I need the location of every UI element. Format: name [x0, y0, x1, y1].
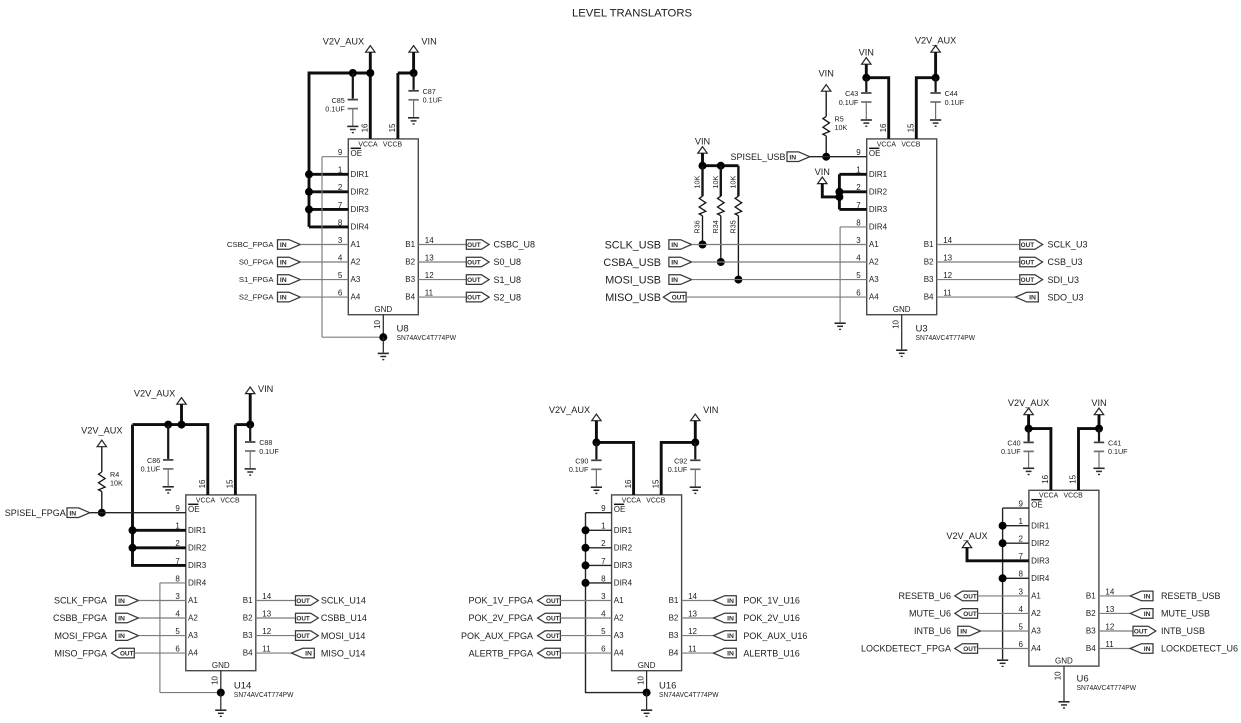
- svg-text:MUTE_U6: MUTE_U6: [909, 609, 951, 619]
- svg-text:15: 15: [1069, 474, 1078, 483]
- svg-text:16: 16: [198, 479, 207, 488]
- junction V2V_AUX / C90: [592, 438, 600, 446]
- wire OE stub: [586, 512, 612, 514]
- svg-text:MUTE_USB: MUTE_USB: [1161, 609, 1210, 619]
- wire OE pin 9: [322, 156, 348, 158]
- ground (U14 GND): [215, 710, 226, 716]
- svg-text:VCCA: VCCA: [622, 497, 642, 504]
- svg-text:OUT: OUT: [1021, 277, 1035, 284]
- svg-text:0.1UF: 0.1UF: [668, 465, 688, 474]
- svg-text:0.1UF: 0.1UF: [1001, 447, 1021, 456]
- junction GND node U16: [643, 689, 651, 697]
- svg-text:4: 4: [1018, 605, 1023, 614]
- svg-text:IN: IN: [280, 260, 287, 267]
- port OUT SCLK_U3: [1020, 240, 1043, 250]
- junction GND node U14: [217, 689, 225, 697]
- ground: [245, 469, 256, 475]
- svg-text:A1: A1: [869, 240, 879, 249]
- svg-text:MOSI_USB: MOSI_USB: [605, 274, 661, 286]
- capacitor C40 0.1UF: [1001, 429, 1034, 468]
- svg-text:GND: GND: [893, 305, 911, 314]
- wire VCCB pin 15 feed: [396, 73, 399, 139]
- wire B pin to SDO_U3: [937, 296, 1016, 298]
- svg-text:IN: IN: [727, 598, 734, 605]
- svg-text:IN: IN: [69, 510, 76, 517]
- svg-text:SN74AVC4T774PW: SN74AVC4T774PW: [659, 690, 719, 699]
- junction VIN / C43: [862, 74, 870, 82]
- ground: [1093, 468, 1104, 474]
- power V2V_AUX (R4): [81, 426, 122, 447]
- svg-text:IN: IN: [280, 295, 287, 302]
- wire B pin to LOCKDETECT_U6: [1099, 648, 1130, 650]
- resistor R34 10K: [720, 166, 722, 197]
- wire DIR2 stub: [1003, 542, 1029, 544]
- wire B pin to CSBB_U14: [256, 617, 296, 619]
- port IN POK_AUX_U16: [714, 631, 737, 641]
- svg-text:B3: B3: [1086, 627, 1096, 636]
- svg-text:VIN: VIN: [815, 167, 830, 177]
- port OUT S1_U8: [466, 275, 489, 285]
- wire B pin to ALERTB_U16: [682, 652, 714, 654]
- wire VCCB feed: [234, 425, 237, 495]
- svg-text:A3: A3: [614, 631, 624, 640]
- svg-text:VCCA: VCCA: [1039, 493, 1059, 500]
- junction VIN / C92: [691, 438, 699, 446]
- svg-text:5: 5: [338, 271, 343, 280]
- port OUT CSBC_U8: [466, 240, 489, 250]
- power VIN (R5): [819, 68, 834, 91]
- wire V2V_AUX to VCCA: [596, 442, 633, 495]
- svg-text:10K: 10K: [110, 479, 123, 488]
- svg-text:IN: IN: [118, 598, 125, 605]
- junction R5 / SPISEL_USB / OE: [822, 153, 830, 161]
- wire GND pin 10: [1063, 666, 1065, 701]
- svg-text:IN: IN: [671, 277, 678, 284]
- svg-text:OUT: OUT: [963, 646, 977, 653]
- svg-text:CSB_U3: CSB_U3: [1048, 257, 1083, 267]
- svg-text:6: 6: [856, 289, 861, 298]
- wire V2V_AUX to VCCA pin 16: [369, 52, 372, 139]
- wire DIR1 stub: [1003, 525, 1029, 527]
- svg-text:SN74AVC4T774PW: SN74AVC4T774PW: [916, 333, 976, 342]
- power V2V_AUX (U8): [323, 36, 375, 52]
- port IN SDO_U3: [1016, 292, 1039, 302]
- svg-text:9: 9: [601, 504, 606, 513]
- power VIN (U14): [246, 384, 274, 394]
- svg-text:OE: OE: [869, 149, 881, 158]
- wire B pin to POK_2V_U16: [682, 617, 714, 619]
- svg-text:IN: IN: [1144, 646, 1151, 653]
- svg-text:IN: IN: [789, 154, 796, 161]
- wire DIR4 stub: [840, 226, 867, 228]
- svg-text:OUT: OUT: [963, 594, 977, 601]
- wire DIR1 stub: [133, 529, 186, 532]
- power VIN (U6): [1091, 398, 1106, 415]
- wire CSBA_USB to pin: [692, 261, 867, 263]
- wire B pin to SDI_U3: [937, 279, 1020, 281]
- port IN S0_FPGA: [278, 257, 301, 267]
- wire VIN stem: [865, 64, 868, 78]
- junction DIR1: [582, 526, 590, 534]
- svg-text:B2: B2: [1086, 609, 1096, 618]
- wire RESETB_U6 to pin: [978, 595, 1029, 597]
- svg-text:DIR1: DIR1: [351, 170, 370, 179]
- svg-text:VCCA: VCCA: [196, 497, 216, 504]
- svg-text:IN: IN: [671, 242, 678, 249]
- svg-text:VIN: VIN: [859, 47, 874, 57]
- wire B pin to SCLK_U3: [937, 244, 1020, 246]
- svg-text:B3: B3: [243, 631, 253, 640]
- svg-text:V2V_AUX: V2V_AUX: [81, 426, 122, 436]
- resistor R4 zigzag: [99, 472, 106, 492]
- wire GND pin 10: [220, 671, 222, 693]
- port OUT MUTE_U6: [955, 609, 978, 619]
- svg-text:13: 13: [1105, 605, 1114, 614]
- svg-text:CSBA_USB: CSBA_USB: [603, 257, 661, 269]
- port OUT SDI_U3: [1020, 275, 1043, 285]
- svg-text:B4: B4: [669, 649, 679, 658]
- port OUT LOCKDETECT_FPGA: [955, 644, 978, 654]
- power V2V_AUX (U3 VCCB): [915, 35, 956, 52]
- svg-text:16: 16: [1041, 474, 1050, 483]
- svg-text:OUT: OUT: [546, 616, 560, 623]
- wire LOCKDETECT_FPGA to pin: [978, 648, 1029, 650]
- svg-text:OE: OE: [188, 505, 200, 514]
- resistor R34 zigzag: [718, 196, 725, 216]
- svg-text:DIR4: DIR4: [1031, 574, 1050, 583]
- wire OE stub: [1003, 507, 1029, 509]
- wire VIN to VCCB: [661, 442, 695, 495]
- svg-text:1: 1: [601, 522, 606, 531]
- svg-text:VIN: VIN: [819, 68, 834, 78]
- svg-text:OE: OE: [614, 505, 626, 514]
- svg-text:MISO_FPGA: MISO_FPGA: [54, 648, 107, 658]
- junction R36 bottom: [699, 241, 707, 249]
- port IN S2_FPGA: [278, 292, 301, 302]
- svg-text:10K: 10K: [729, 176, 738, 189]
- svg-text:VIN: VIN: [703, 405, 718, 415]
- svg-text:DIR3: DIR3: [614, 561, 633, 570]
- svg-text:DIR4: DIR4: [188, 579, 207, 588]
- svg-text:8: 8: [856, 218, 861, 227]
- svg-text:A3: A3: [188, 631, 198, 640]
- svg-text:IN: IN: [118, 616, 125, 623]
- svg-text:B2: B2: [924, 258, 934, 267]
- svg-text:A4: A4: [1031, 644, 1041, 653]
- svg-text:B4: B4: [1086, 644, 1096, 653]
- svg-text:6: 6: [338, 289, 343, 298]
- wire V2V_AUX rail to VCCA: [133, 425, 208, 495]
- svg-text:R35: R35: [729, 220, 738, 233]
- svg-text:10: 10: [892, 319, 901, 328]
- wire S0_FPGA to pin: [300, 261, 348, 263]
- wire DIR4 stub: [160, 582, 186, 584]
- svg-text:V2V_AUX: V2V_AUX: [549, 405, 590, 415]
- junction R35 bottom: [734, 276, 742, 284]
- junction V2V_AUX / C44: [932, 74, 940, 82]
- svg-text:13: 13: [425, 253, 434, 262]
- svg-text:OUT: OUT: [1021, 260, 1035, 267]
- svg-text:11: 11: [425, 289, 434, 298]
- ground: [1023, 468, 1034, 474]
- capacitor C92 0.1UF: [668, 442, 701, 486]
- junction VIN rail: [410, 69, 418, 77]
- svg-text:11: 11: [262, 645, 271, 654]
- svg-text:A3: A3: [351, 275, 361, 284]
- wire ALERTB_FPGA to pin: [560, 652, 611, 654]
- wire DIR1 stub: [586, 529, 612, 531]
- port OUT MOSI_U14: [296, 631, 319, 641]
- svg-text:0.1UF: 0.1UF: [945, 98, 965, 107]
- port IN SCLK_FPGA: [116, 596, 139, 606]
- capacitor C88 0.1UF: [245, 425, 279, 469]
- junction DIR2: [305, 188, 313, 196]
- svg-text:B2: B2: [405, 258, 415, 267]
- junction VIN / C41: [1095, 425, 1103, 433]
- svg-text:SPISEL_FPGA: SPISEL_FPGA: [5, 508, 66, 518]
- capacitor C85 0.1UF: [325, 73, 358, 126]
- port OUT SCLK_U14: [296, 596, 319, 606]
- svg-text:GND: GND: [374, 305, 392, 314]
- svg-text:OUT: OUT: [1021, 242, 1035, 249]
- port OUT MISO_USB: [663, 292, 686, 302]
- svg-text:13: 13: [943, 253, 952, 262]
- svg-text:B2: B2: [669, 614, 679, 623]
- svg-text:VCCA: VCCA: [877, 141, 897, 148]
- svg-text:LOCKDETECT_FPGA: LOCKDETECT_FPGA: [861, 644, 951, 654]
- svg-text:A4: A4: [869, 293, 879, 302]
- wire DIR3 stub: [839, 208, 866, 211]
- wire VIN to DIR bus: [822, 184, 839, 197]
- svg-text:A3: A3: [1031, 627, 1041, 636]
- wire MISO_FPGA to pin: [134, 652, 186, 654]
- svg-text:S2_U8: S2_U8: [494, 292, 522, 302]
- power V2V_AUX (U6 DIR3): [946, 531, 987, 548]
- junction DIR1: [999, 522, 1007, 530]
- svg-text:OUT: OUT: [546, 651, 560, 658]
- wire B pin to INTB_USB: [1099, 630, 1133, 632]
- svg-text:SCLK_FPGA: SCLK_FPGA: [54, 596, 107, 606]
- wire R34 to line: [720, 216, 722, 262]
- wire DIR bus vertical: [838, 174, 841, 209]
- svg-text:DIR2: DIR2: [614, 543, 633, 552]
- wire INTB_U6 to pin: [981, 630, 1029, 632]
- svg-text:DIR1: DIR1: [1031, 521, 1050, 530]
- svg-text:B3: B3: [405, 275, 415, 284]
- junction DIR1: [305, 170, 313, 178]
- IC U3 SN74AVC4T774PW level translator: [856, 123, 952, 329]
- port OUT CSB_U3: [1020, 257, 1043, 267]
- wire DIR2 stub: [586, 547, 612, 549]
- svg-text:0.1UF: 0.1UF: [839, 98, 859, 107]
- resistor R35 zigzag: [735, 196, 742, 216]
- svg-text:0.1UF: 0.1UF: [423, 96, 443, 105]
- capacitor C43 0.1UF: [839, 78, 872, 120]
- wire VIN to VCCA pin 16: [866, 78, 888, 139]
- junction DIR2: [582, 544, 590, 552]
- svg-text:2: 2: [1018, 535, 1023, 544]
- wire V2V_AUX to DIR3: [967, 548, 1029, 561]
- svg-text:S1_FPGA: S1_FPGA: [239, 275, 274, 284]
- svg-text:VCCA: VCCA: [358, 141, 378, 148]
- svg-text:OUT: OUT: [120, 651, 134, 658]
- port IN MOSI_FPGA: [116, 631, 139, 641]
- wire B pin to SCLK_U14: [256, 600, 296, 602]
- svg-text:0.1UF: 0.1UF: [325, 104, 345, 113]
- resistor R36 zigzag: [699, 196, 706, 216]
- ground: [591, 487, 602, 493]
- svg-text:10K: 10K: [711, 176, 720, 189]
- junction DIR1: [129, 526, 137, 534]
- ground (U6 DIR bus): [997, 660, 1008, 666]
- ground: [690, 487, 701, 493]
- svg-text:12: 12: [1105, 622, 1114, 631]
- ground (U8 GND): [378, 353, 389, 359]
- wire OE to GND junction: [322, 336, 383, 338]
- svg-text:11: 11: [688, 645, 697, 654]
- port OUT POK_1V_FPGA: [538, 596, 561, 606]
- svg-text:DIR4: DIR4: [351, 223, 370, 232]
- svg-text:A1: A1: [351, 240, 361, 249]
- svg-text:POK_AUX_U16: POK_AUX_U16: [743, 631, 807, 641]
- svg-text:A1: A1: [1031, 592, 1041, 601]
- svg-text:5: 5: [856, 271, 861, 280]
- svg-text:VIN: VIN: [421, 36, 436, 46]
- svg-text:OE: OE: [351, 149, 363, 158]
- resistor R4 10K: [101, 447, 103, 472]
- svg-text:3: 3: [338, 236, 343, 245]
- svg-text:9: 9: [856, 148, 861, 157]
- svg-text:3: 3: [175, 592, 180, 601]
- port IN S1_FPGA: [278, 275, 301, 285]
- wire B pin to S2_U8: [418, 296, 466, 298]
- svg-text:5: 5: [1018, 622, 1023, 631]
- svg-text:4: 4: [856, 253, 861, 262]
- junction VIN / C88: [246, 421, 254, 429]
- svg-text:15: 15: [651, 479, 660, 488]
- wire DIR4 down to ground: [839, 227, 841, 323]
- svg-text:POK_2V_U16: POK_2V_U16: [743, 613, 800, 623]
- IC U14 SN74AVC4T774PW level translator: [175, 479, 271, 685]
- svg-text:CSBB_FPGA: CSBB_FPGA: [53, 613, 107, 623]
- wire R35 to line: [737, 216, 739, 280]
- svg-text:0.1UF: 0.1UF: [141, 465, 161, 474]
- svg-text:A1: A1: [614, 596, 624, 605]
- wire DIR4 to GND node: [160, 692, 221, 694]
- wire B pin to CSB_U3: [937, 261, 1020, 263]
- ground: [408, 118, 419, 124]
- port IN CSBA_USB: [669, 257, 692, 267]
- port OUT S0_U8: [466, 257, 489, 267]
- wire VIN stem: [249, 394, 252, 425]
- svg-text:B3: B3: [669, 631, 679, 640]
- svg-text:13: 13: [262, 609, 271, 618]
- wire SCLK_FPGA to pin: [139, 600, 186, 602]
- port OUT S2_U8: [466, 292, 489, 302]
- svg-text:MISO_USB: MISO_USB: [605, 292, 661, 304]
- svg-text:11: 11: [943, 289, 952, 298]
- svg-text:0.1UF: 0.1UF: [1108, 447, 1128, 456]
- svg-text:12: 12: [943, 271, 952, 280]
- svg-text:DIR3: DIR3: [869, 205, 888, 214]
- svg-text:SN74AVC4T774PW: SN74AVC4T774PW: [234, 690, 294, 699]
- wire MOSI_USB to pin: [692, 279, 867, 281]
- svg-text:SDI_U3: SDI_U3: [1048, 275, 1080, 285]
- svg-text:14: 14: [688, 592, 697, 601]
- wire DIR4 tie: [309, 225, 348, 228]
- svg-text:14: 14: [943, 236, 952, 245]
- port OUT RESETB_U6: [955, 591, 978, 601]
- svg-text:12: 12: [262, 627, 271, 636]
- resistor R35 10K: [737, 166, 739, 197]
- wire DIR4 down: [159, 583, 161, 693]
- svg-text:10: 10: [1054, 671, 1063, 680]
- svg-text:DIR2: DIR2: [869, 187, 888, 196]
- power V2V_AUX (U6): [1008, 398, 1049, 415]
- svg-text:R34: R34: [711, 220, 720, 233]
- svg-text:OUT: OUT: [546, 598, 560, 605]
- svg-text:5: 5: [601, 627, 606, 636]
- svg-text:DIR4: DIR4: [614, 579, 633, 588]
- svg-text:OUT: OUT: [467, 260, 481, 267]
- svg-text:4: 4: [175, 609, 180, 618]
- svg-text:A2: A2: [1031, 609, 1041, 618]
- svg-text:INTB_U6: INTB_U6: [914, 626, 951, 636]
- svg-text:10: 10: [636, 675, 645, 684]
- svg-text:DIR2: DIR2: [1031, 539, 1050, 548]
- port OUT POK_AUX_FPGA: [538, 631, 561, 641]
- svg-text:DIR3: DIR3: [188, 561, 207, 570]
- wire DIR3 stub: [586, 564, 612, 566]
- svg-text:IN: IN: [727, 616, 734, 623]
- wire VIN stem: [701, 153, 704, 166]
- svg-text:A1: A1: [188, 596, 198, 605]
- svg-text:IN: IN: [1144, 594, 1151, 601]
- wire DIR1 tie: [309, 173, 348, 176]
- junction DIR3: [305, 205, 313, 213]
- svg-text:1: 1: [1018, 517, 1023, 526]
- svg-text:B4: B4: [405, 293, 415, 302]
- svg-text:A4: A4: [614, 649, 624, 658]
- svg-text:OUT: OUT: [467, 295, 481, 302]
- svg-text:DIR3: DIR3: [351, 205, 370, 214]
- capacitor C44 0.1UF: [930, 78, 964, 120]
- junction C85 tap: [349, 69, 357, 77]
- resistor R36 10K: [701, 166, 703, 197]
- svg-text:S1_U8: S1_U8: [494, 275, 522, 285]
- svg-text:A2: A2: [869, 258, 879, 267]
- capacitor C41 0.1UF: [1094, 429, 1128, 468]
- capacitor C87 0.1UF: [408, 73, 442, 117]
- svg-text:B1: B1: [924, 240, 934, 249]
- IC U6 SN74AVC4T774PW level translator: [1018, 474, 1114, 680]
- svg-text:DIR2: DIR2: [188, 543, 207, 552]
- svg-text:VCCB: VCCB: [646, 497, 666, 504]
- IC U16 SN74AVC4T774PW level translator: [601, 479, 697, 685]
- wire V2V_AUX to VCCA: [1029, 429, 1051, 491]
- svg-text:OUT: OUT: [296, 616, 310, 623]
- svg-text:RESETB_U6: RESETB_U6: [898, 591, 951, 601]
- svg-text:A2: A2: [351, 258, 361, 267]
- wire OE/DIR bus to GND: [586, 513, 647, 693]
- port IN POK_1V_U16: [714, 596, 737, 606]
- port IN RESETB_USB: [1130, 591, 1153, 601]
- svg-text:2: 2: [601, 539, 606, 548]
- junction DIR2: [999, 539, 1007, 547]
- svg-text:15: 15: [388, 123, 397, 132]
- svg-text:VIN: VIN: [695, 136, 710, 146]
- svg-text:POK_1V_U16: POK_1V_U16: [743, 596, 800, 606]
